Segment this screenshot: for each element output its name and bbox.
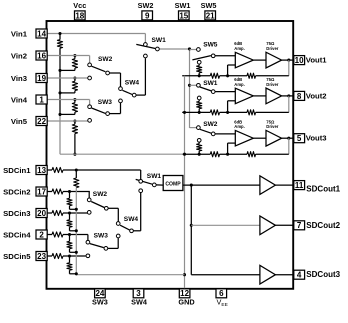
- svg-text:SW1: SW1: [147, 173, 162, 180]
- svg-text:SW2: SW2: [138, 1, 154, 10]
- svg-text:Vcc: Vcc: [73, 1, 86, 10]
- svg-text:SW3: SW3: [94, 232, 109, 239]
- svg-text:Driver: Driver: [266, 82, 278, 87]
- svg-text:4: 4: [297, 271, 302, 280]
- svg-text:23: 23: [37, 252, 46, 261]
- svg-text:SW5: SW5: [203, 41, 218, 48]
- svg-text:1: 1: [39, 95, 44, 104]
- svg-text:COMP: COMP: [165, 181, 181, 187]
- svg-text:21: 21: [206, 11, 215, 20]
- svg-text:GND: GND: [178, 298, 194, 307]
- svg-text:SW1: SW1: [175, 1, 191, 10]
- svg-text:SDCin5: SDCin5: [3, 252, 31, 261]
- svg-text:Vin5: Vin5: [11, 117, 28, 126]
- svg-text:Vin3: Vin3: [11, 74, 27, 83]
- svg-text:SW1: SW1: [203, 80, 218, 87]
- svg-text:15: 15: [179, 11, 188, 20]
- svg-text:13: 13: [37, 166, 46, 175]
- svg-text:Driver: Driver: [266, 124, 278, 129]
- svg-text:Vin2: Vin2: [11, 51, 27, 60]
- svg-text:SDCin1: SDCin1: [3, 166, 31, 175]
- svg-text:14: 14: [37, 29, 46, 38]
- svg-text:8: 8: [297, 92, 302, 101]
- svg-text:20: 20: [37, 209, 46, 218]
- svg-text:19: 19: [37, 74, 46, 83]
- svg-text:Driver: Driver: [266, 46, 278, 51]
- svg-text:Amp.: Amp.: [234, 46, 244, 51]
- svg-text:17: 17: [37, 187, 46, 196]
- svg-text:SDCin2: SDCin2: [3, 187, 30, 196]
- svg-text:7: 7: [297, 221, 302, 230]
- svg-text:SW5: SW5: [201, 1, 217, 10]
- svg-text:Vin4: Vin4: [11, 95, 28, 104]
- svg-text:Amp.: Amp.: [234, 124, 244, 129]
- svg-text:Amp.: Amp.: [234, 82, 244, 87]
- svg-text:9: 9: [145, 11, 150, 20]
- svg-text:16: 16: [37, 51, 46, 60]
- svg-text:SDCout2: SDCout2: [306, 221, 340, 230]
- svg-text:Vout3: Vout3: [306, 134, 327, 143]
- svg-text:SDCin4: SDCin4: [3, 230, 31, 239]
- svg-text:SW4: SW4: [131, 298, 148, 307]
- svg-text:SW1: SW1: [152, 37, 167, 44]
- svg-text:10: 10: [295, 56, 304, 65]
- svg-text:SW2: SW2: [98, 56, 113, 63]
- svg-text:SW4: SW4: [125, 79, 140, 86]
- svg-text:Vout1: Vout1: [306, 56, 328, 65]
- svg-text:SDCin3: SDCin3: [3, 209, 30, 218]
- svg-text:SDCout1: SDCout1: [306, 184, 340, 193]
- svg-text:SW3: SW3: [92, 298, 108, 307]
- svg-text:SW2: SW2: [93, 191, 108, 198]
- svg-text:Vin1: Vin1: [11, 29, 28, 38]
- svg-text:18: 18: [75, 11, 84, 20]
- svg-text:SW4: SW4: [124, 216, 139, 223]
- svg-text:SW2: SW2: [203, 121, 218, 128]
- svg-text:22: 22: [37, 117, 46, 126]
- svg-text:5: 5: [297, 134, 302, 143]
- svg-text:11: 11: [295, 181, 304, 190]
- svg-text:SDCout3: SDCout3: [306, 270, 340, 279]
- svg-text:SW3: SW3: [98, 99, 113, 106]
- svg-text:2: 2: [39, 230, 44, 239]
- svg-text:Vout2: Vout2: [306, 91, 327, 100]
